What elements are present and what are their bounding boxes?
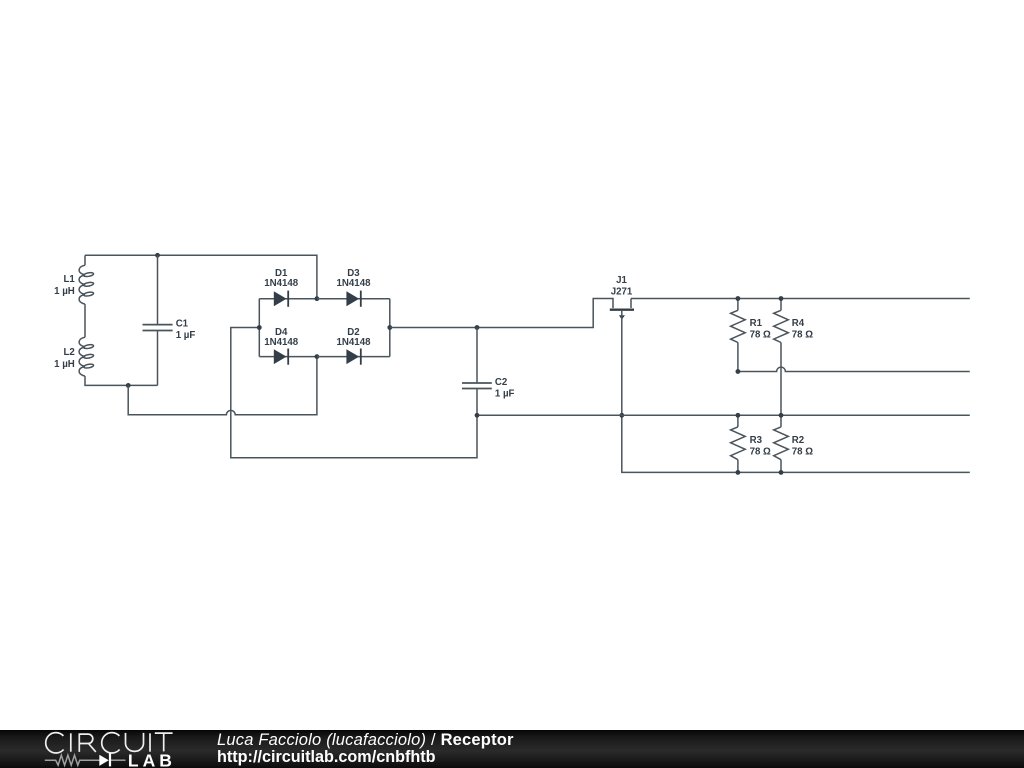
footer line 2 bbox=[217, 749, 436, 765]
wire top rail right (JFET source to edge) bbox=[631, 298, 970, 300]
svg-text:1N4148: 1N4148 bbox=[337, 337, 372, 348]
node gate / mid rail junction bbox=[619, 413, 624, 418]
footer line 1 bbox=[217, 732, 514, 749]
svg-text:R3: R3 bbox=[750, 435, 763, 446]
node bridge top-mid junction bbox=[315, 296, 320, 301]
wire bridge left edge bbox=[258, 299, 260, 357]
diode D3 1N4148 bbox=[317, 268, 390, 307]
inductor L2 bbox=[54, 337, 94, 376]
node C2 bottom junction bbox=[475, 413, 480, 418]
resistor R2 78 ohm bbox=[774, 415, 814, 472]
svg-text:C2: C2 bbox=[495, 377, 507, 388]
node C2 top junction bbox=[475, 325, 480, 330]
wire L1 top lead bbox=[84, 255, 86, 265]
wire bridge right-mid to JFET drain bbox=[390, 299, 613, 328]
node R1 top junction bbox=[736, 296, 741, 301]
svg-text:78 Ω: 78 Ω bbox=[792, 446, 813, 457]
wire tank bottom bbox=[85, 376, 158, 385]
node R3 bottom junction bbox=[736, 470, 741, 475]
wire bridge right edge bbox=[389, 299, 391, 357]
inductor L1 bbox=[54, 265, 94, 304]
svg-text:1N4148: 1N4148 bbox=[337, 278, 372, 289]
wire bridge left-mid down and around to C2 bottom bbox=[231, 328, 477, 458]
wire second rail from R1 bottom (hop over R4 lead) bbox=[738, 367, 970, 371]
capacitor C2 bbox=[462, 328, 515, 416]
node R2 top junction bbox=[779, 413, 784, 418]
node bridge left-mid junction bbox=[257, 325, 262, 330]
svg-text:J1: J1 bbox=[616, 275, 627, 286]
resistor R4 78 ohm bbox=[774, 299, 814, 416]
node R2 bottom junction bbox=[779, 470, 784, 475]
svg-text:78 Ω: 78 Ω bbox=[750, 446, 771, 457]
wire top rail from L1 top to bridge top bbox=[85, 255, 317, 298]
CircuitLab logo bbox=[0, 0, 200, 768]
svg-text:78 Ω: 78 Ω bbox=[750, 330, 771, 341]
node R3 top junction bbox=[736, 413, 741, 418]
wire between L1 and L2 bbox=[84, 304, 86, 337]
resistor R1 78 ohm bbox=[731, 299, 771, 372]
svg-text:1N4148: 1N4148 bbox=[264, 337, 299, 348]
svg-text:LAB: LAB bbox=[128, 751, 176, 768]
footer bar bbox=[0, 730, 1024, 768]
transistor J1 J271 (p-JFET) bbox=[610, 275, 634, 319]
node R4 top junction bbox=[779, 296, 784, 301]
diode D2 1N4148 bbox=[317, 327, 390, 365]
node bridge bottom-mid junction bbox=[315, 354, 320, 359]
diode D1 1N4148 bbox=[259, 268, 317, 307]
svg-text:J271: J271 bbox=[611, 287, 633, 298]
svg-text:R4: R4 bbox=[792, 318, 805, 329]
wire JFET gate down to bottom rail bbox=[622, 311, 970, 473]
svg-text:78 Ω: 78 Ω bbox=[792, 330, 813, 341]
node tank bottom junction bbox=[126, 383, 131, 388]
resistor R3 78 ohm bbox=[731, 415, 771, 472]
wire mid rail (C2 bottom to edge) bbox=[477, 414, 970, 416]
svg-text:R1: R1 bbox=[750, 318, 763, 329]
diode D4 1N4148 bbox=[259, 327, 317, 365]
node bridge right-mid junction bbox=[387, 325, 392, 330]
svg-text:1N4148: 1N4148 bbox=[264, 278, 299, 289]
capacitor C1 bbox=[143, 255, 196, 385]
node R1 bottom junction bbox=[736, 369, 741, 374]
node tank top junction bbox=[155, 253, 160, 258]
wire tank bottom to bridge bottom (with hop over crossing wire) bbox=[128, 357, 317, 415]
svg-text:R2: R2 bbox=[792, 435, 804, 446]
svg-text:1 µF: 1 µF bbox=[495, 389, 515, 400]
